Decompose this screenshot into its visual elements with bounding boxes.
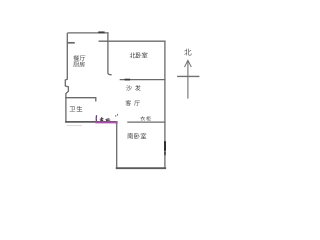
wall: south bedroom bottom edge <box>117 167 166 169</box>
label: kitchen 厨房 <box>73 62 79 67</box>
label: dining room 餐厅 <box>73 55 79 61</box>
annotation: tiny gray tick at bedroom wall top <box>117 114 119 116</box>
label: north bedroom 北卧室 <box>130 52 136 58</box>
label: north 北 <box>184 49 191 56</box>
wall: south bedroom left wall <box>116 122 118 168</box>
wall: small tick inside dining top-left <box>68 42 74 44</box>
wall: dining room top edge <box>68 32 108 34</box>
annotation: handwritten char 1 <box>100 117 104 121</box>
wall: dark duct mark on top edge <box>99 31 104 33</box>
wall: hallway bottom edge <box>66 121 117 123</box>
annotation: purple handwritten stroke <box>95 115 97 121</box>
north arrow shaft <box>187 61 189 99</box>
label: wardrobe 衣柜 <box>140 116 145 121</box>
wall: bathroom top edge <box>66 98 96 101</box>
annotation: small dot <box>115 115 116 116</box>
north arrow crossbar <box>177 75 199 77</box>
wall: dark door-frame mark on sofa wall <box>125 79 129 81</box>
wall: divider north bedroom / living room (sofa wall) <box>120 79 165 81</box>
wall: vertical divider dining / north bedroom <box>108 33 111 75</box>
wall: dark balcony-door mark on right wall <box>164 142 166 150</box>
scan smudge below bathroom corner <box>67 125 83 127</box>
wall: right exterior wall <box>164 41 166 168</box>
annotation: thick purple underline along hallway wall <box>95 123 117 124</box>
wall: small dark blob below balcony-door mark <box>164 152 166 154</box>
wall: left exterior wall with plumbing jogs <box>65 33 68 97</box>
label: south bedroom 南卧室 <box>127 133 133 139</box>
label: bathroom 卫生 <box>70 106 76 111</box>
wall: left wall lower part (bathroom) <box>65 98 67 122</box>
label: sofa 沙发 <box>126 85 132 91</box>
label: living room 客厅 <box>126 100 132 106</box>
north arrow head <box>185 60 192 67</box>
wall: wardrobe line south bedroom top <box>128 121 165 123</box>
wall: north bedroom top edge <box>99 40 165 42</box>
annotation: handwritten char 2 <box>106 119 111 121</box>
